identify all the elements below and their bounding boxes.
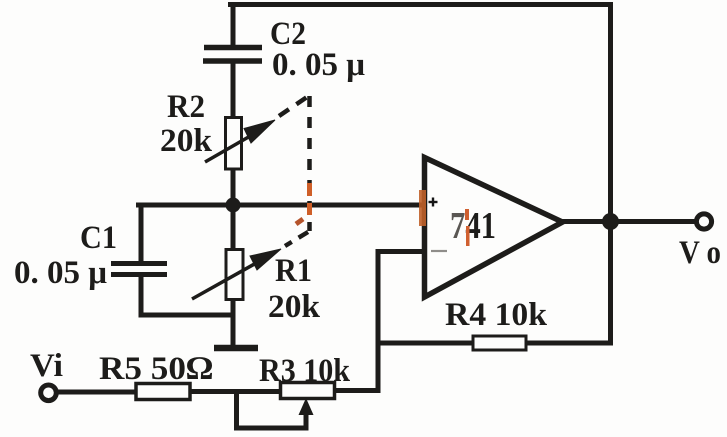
wire C1 top lead <box>139 205 144 261</box>
orange watermark remnant on dashed line <box>296 183 310 224</box>
resistor R4 body <box>473 336 526 350</box>
svg-text:R2: R2 <box>167 89 205 125</box>
wire input terminal to R5 <box>58 390 136 395</box>
wire op-amp output to node B <box>563 219 610 224</box>
svg-text:Vi: Vi <box>30 348 63 384</box>
wire node A to R1 top <box>231 205 236 250</box>
op-amp U1 741 triangle <box>425 158 563 298</box>
op-amp - pin label <box>431 250 447 252</box>
svg-text:C1: C1 <box>80 220 117 256</box>
resistor R2 arrow <box>205 120 275 162</box>
wire right vertical (output to R4) <box>608 5 613 344</box>
orange watermark remnant on op-amp edge <box>419 190 426 226</box>
wire R4 right lead <box>526 341 610 346</box>
svg-text:0. 05 μ: 0. 05 μ <box>272 47 365 83</box>
resistor R1 (variable) body <box>226 250 243 300</box>
wire C1 bottom lead <box>139 277 144 315</box>
wire R2 bottom to node A <box>231 168 236 205</box>
capacitor C1 <box>111 264 167 275</box>
resistor R5 body <box>136 384 190 400</box>
resistor R1 arrow <box>192 249 281 299</box>
wire R3 wiper arrow shaft <box>304 413 309 428</box>
svg-text:20k: 20k <box>268 289 321 325</box>
node B junction dot <box>602 213 619 230</box>
wire op-amp inverting input horizontal <box>378 249 422 254</box>
wire mid horizontal node A to op-amp + input <box>139 203 424 208</box>
op-amp + pin label <box>429 198 438 207</box>
wire C2 top lead <box>231 5 236 47</box>
capacitor C2 <box>203 48 262 62</box>
svg-text:741: 741 <box>450 205 496 247</box>
wire R5 to R3 <box>190 389 281 394</box>
dashed gang-coupling line R2 to R1 <box>279 96 310 246</box>
wire R4 left lead <box>378 341 473 346</box>
wire R3 right end to inverting node <box>335 388 378 393</box>
svg-text:R3 10k: R3 10k <box>259 353 351 389</box>
wire C2 bottom lead to R2 <box>231 63 236 118</box>
svg-text:R5 50Ω: R5 50Ω <box>99 351 213 387</box>
resistor R2 (variable) body <box>226 118 242 170</box>
wire C1 bottom horizontal to R1 branch <box>141 313 233 318</box>
svg-text:20k: 20k <box>160 123 213 159</box>
node A junction dot <box>226 198 241 213</box>
input terminal Vi circle <box>41 385 57 401</box>
wire node B to Vo terminal <box>610 219 694 224</box>
wire top horizontal <box>231 2 611 7</box>
R3 wiper arrowhead <box>299 398 314 415</box>
wire R1 bottom to ground <box>231 299 236 345</box>
svg-text:R1: R1 <box>275 253 312 289</box>
svg-text:R4 10k: R4 10k <box>445 297 548 333</box>
orange watermark remnant in 741 <box>465 209 469 220</box>
svg-text:0. 05 μ: 0. 05 μ <box>14 255 107 291</box>
wire inverting node vertical <box>376 252 381 391</box>
output terminal Vo circle <box>696 214 711 229</box>
ground <box>214 345 258 352</box>
resistor R3 (potentiometer) body <box>281 383 335 399</box>
wire R3 wiper loop down-left <box>237 392 307 428</box>
svg-text:V o: V o <box>679 235 721 271</box>
